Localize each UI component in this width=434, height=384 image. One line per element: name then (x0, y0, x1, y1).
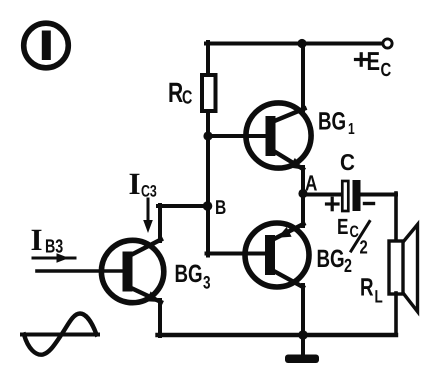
svg-text:C: C (381, 60, 392, 81)
wire BG1 collector vertical (301, 44, 305, 111)
transistor BG1 (NPN) (246, 103, 311, 170)
svg-text:B: B (215, 197, 226, 219)
svg-text:B3: B3 (45, 237, 63, 258)
wire resistor bottom down to BG2 base corner (206, 111, 210, 256)
wire BG2 collector vertical (301, 285, 305, 336)
svg-text:I: I (31, 222, 43, 257)
label BG2 (317, 245, 352, 277)
svg-text:BG: BG (318, 108, 346, 136)
label +Ec (356, 46, 392, 81)
label BG1 (318, 108, 355, 139)
svg-text:I: I (129, 166, 141, 201)
svg-text:C: C (182, 88, 193, 109)
svg-text:E: E (367, 46, 381, 76)
wire top-left corner down to resistor (206, 42, 210, 76)
wire BG3 base input (37, 269, 125, 273)
label B (215, 197, 226, 219)
label C (340, 149, 355, 175)
wire speaker bottom vertical (394, 293, 398, 335)
wire top rail (206, 42, 382, 46)
svg-text:BG: BG (317, 245, 345, 273)
label BG3 (175, 260, 211, 293)
wire capacitor to speaker (360, 193, 396, 197)
svg-text:2: 2 (344, 256, 352, 277)
wire BG3 collector to node B (158, 204, 209, 208)
capacitor C (electrolytic) (342, 180, 360, 211)
wire BG3 emitter vertical (158, 300, 162, 336)
node B junction dot (203, 201, 213, 211)
svg-text:E: E (337, 214, 348, 239)
node A junction dot (298, 189, 307, 198)
transistor BG3 (NPN) (101, 240, 163, 303)
label + (capacitor polarity) (327, 198, 339, 209)
node junction dot (BG1 base tap) (203, 131, 212, 140)
wire node A to capacitor (303, 193, 341, 197)
wire node A vertical (BG1 emitter to BG2 emitter) (301, 167, 305, 226)
speaker RL (389, 225, 418, 312)
svg-text:3: 3 (203, 273, 211, 293)
wire speaker top vertical (394, 193, 398, 242)
label IC3 (129, 166, 157, 201)
junction dot ground (298, 330, 308, 340)
wire BG1 base (208, 134, 267, 138)
svg-text:R: R (168, 77, 183, 108)
svg-text:L: L (375, 287, 383, 307)
svg-text:2: 2 (360, 238, 368, 259)
arrow IC3 (downward) (143, 199, 153, 233)
wire BG2 base (207, 252, 267, 256)
svg-text:BG: BG (175, 260, 203, 288)
svg-text:R: R (360, 274, 374, 302)
ground (285, 335, 319, 363)
svg-text:C: C (340, 149, 355, 175)
svg-text:A: A (305, 171, 317, 196)
label A (305, 171, 317, 196)
wire BG3 collector vertical (158, 205, 162, 241)
label - (capacitor polarity) (365, 202, 374, 205)
label RL (360, 274, 383, 307)
terminal +Ec (open circle) (383, 39, 392, 48)
svg-text:1: 1 (348, 121, 355, 138)
resistor RC (202, 75, 216, 111)
input source icon (circled bar) (24, 23, 69, 68)
arrow IB3 (rightward) (33, 253, 75, 263)
label EC/2 (337, 214, 370, 259)
junction dot top rail / BG1 collector (297, 39, 306, 48)
sine wave symbol (22, 314, 98, 355)
transistor BG2 (PNP) (245, 223, 309, 287)
label IB3 (31, 222, 64, 258)
label RC (168, 77, 193, 109)
wire bottom rail (158, 333, 397, 337)
